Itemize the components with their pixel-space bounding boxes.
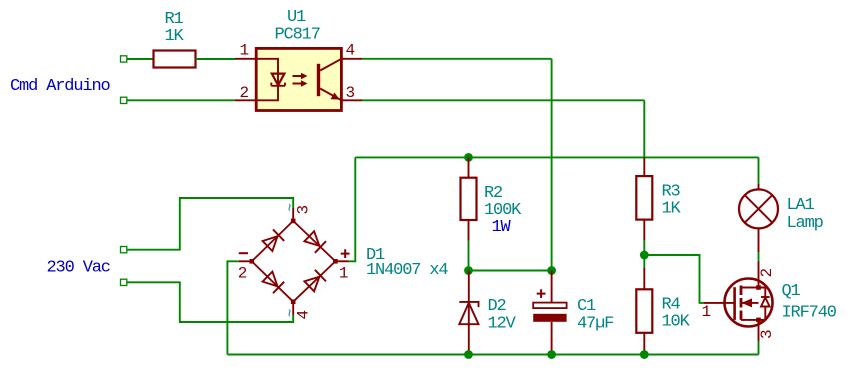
wire pad to R1 [127, 58, 154, 60]
bridge pin2 stub left [239, 260, 252, 262]
svg-text:PC817: PC817 [275, 26, 320, 45]
transistor Q1 internal drain square [756, 285, 761, 290]
resistor R2 [461, 178, 477, 220]
transistor Q1 internal source square [756, 318, 761, 323]
U1 collector line [320, 59, 341, 71]
svg-text:3: 3 [758, 329, 776, 339]
wire R3 bottom to gate node [643, 240, 645, 255]
svg-text:~: ~ [284, 203, 300, 211]
junction R4 ground [640, 350, 649, 359]
pin 2 stub U1 [235, 99, 257, 101]
transistor Q1 body diode branch [759, 288, 766, 320]
wire 230Vac bottom to bridge pin4 [127, 282, 293, 322]
svg-text:1: 1 [339, 265, 349, 283]
wire U1 pin4 vertical down to 12V node [551, 59, 553, 271]
svg-text:12V: 12V [488, 315, 517, 334]
svg-text:IRF740: IRF740 [782, 304, 837, 323]
transistor Q1 gate bar [733, 287, 736, 320]
svg-text:2: 2 [240, 84, 250, 102]
pin 1 stub U1 [235, 58, 257, 60]
pin 3 stub U1 [341, 99, 362, 101]
wire U1 pin4 horizontal [362, 58, 552, 60]
svg-text:Lamp: Lamp [787, 214, 824, 233]
junction gate node [640, 251, 649, 260]
junction D2 ground [464, 350, 473, 359]
bridge pin3 stub top [292, 208, 294, 221]
lamp LA1 cross [745, 195, 773, 223]
svg-text:2: 2 [758, 268, 776, 278]
transistor Q1 substrate line [741, 302, 759, 304]
U1 internal LED triangle [272, 74, 285, 86]
svg-text:1: 1 [240, 42, 250, 60]
transistor Q1 body diode triangle [761, 298, 770, 307]
U1 light arrow lower [293, 83, 302, 85]
transistor Q1 drain internal [741, 287, 759, 289]
U1 light arrow upper [293, 75, 302, 77]
junction rail R2 top [464, 153, 473, 162]
wire 230Vac top to bridge pin3 [127, 198, 293, 250]
resistor R1 [154, 51, 196, 68]
U1 internal LED wiring [256, 59, 278, 101]
svg-text:U1: U1 [287, 8, 306, 27]
wire R2 bottom to 12V node [468, 241, 470, 271]
svg-text:Cmd Arduino: Cmd Arduino [10, 77, 111, 96]
resistor R3 [636, 176, 652, 220]
wire gate node down to R4 [643, 255, 645, 268]
wire Q1 source to ground rail [758, 341, 760, 355]
wire R1 to U1 pin1 [196, 58, 236, 60]
svg-text:47µF: 47µF [577, 315, 613, 334]
wire gate node to Q1 gate [644, 255, 704, 303]
transistor Q1 gate pin [704, 302, 735, 304]
capacitor C1 plus sign [537, 289, 546, 298]
transistor Q1 source internal [741, 319, 759, 321]
svg-text:3: 3 [346, 84, 356, 102]
wire bridge minus to ground rail [227, 261, 238, 354]
svg-text:Q1: Q1 [782, 282, 801, 301]
transistor Q1 channel segments [740, 286, 743, 320]
bridge minus sign [239, 252, 248, 254]
svg-text:D2: D2 [488, 297, 506, 316]
pad 230Vac bottom [121, 279, 127, 285]
lamp LA1 bottom pin [758, 228, 760, 252]
svg-text:C1: C1 [577, 297, 596, 316]
pad 230Vac top [121, 247, 127, 253]
pin stub R3 top [643, 157, 645, 176]
svg-text:1N4007 x4: 1N4007 x4 [366, 261, 448, 280]
capacitor C1 bottom plate [533, 314, 566, 322]
pin stub R4 top [643, 268, 645, 289]
bridge diode bottom-right [304, 277, 319, 292]
resistor R4 [636, 289, 652, 333]
wire lamp to Q1 drain [758, 252, 760, 262]
transistor Q1 circle [725, 279, 773, 327]
pin 4 stub U1 [341, 58, 362, 60]
transistor Q1 drain pin [758, 262, 760, 288]
zener D2 triangle [459, 303, 478, 324]
capacitor C1 bottom pin [551, 322, 553, 355]
transistor Q1 substrate arrow [742, 298, 753, 307]
transistor Q1 source pin [758, 320, 760, 341]
wire U1 pin3 horizontal [362, 99, 644, 101]
pin stub R2 top [468, 157, 470, 177]
junction C1 ground [547, 350, 556, 359]
zener D2 pin line [468, 271, 470, 355]
U1 emitter line [320, 89, 341, 101]
op-amp U1 optocoupler body [256, 48, 341, 110]
bridge diode top-left [263, 236, 278, 251]
svg-text:1K: 1K [662, 200, 682, 219]
svg-text:10K: 10K [662, 313, 691, 332]
svg-text:230 Vac: 230 Vac [47, 259, 110, 278]
diode bridge D1 outline [252, 221, 336, 302]
bridge diode top-right [304, 231, 319, 246]
svg-text:1: 1 [702, 303, 712, 321]
lamp LA1 top pin [758, 184, 760, 190]
lamp LA1 circle [739, 189, 778, 228]
wire rail to lamp [758, 157, 760, 183]
zener D2 cathode bar [459, 302, 478, 307]
bridge pin4 stub bottom [292, 302, 294, 315]
svg-text:LA1: LA1 [787, 196, 815, 215]
capacitor C1 top pin [551, 271, 553, 303]
bridge diode bottom-left [263, 272, 278, 287]
pad pin1 Cmd Arduino [121, 56, 127, 62]
junction 12V node right [547, 266, 556, 275]
svg-text:~: ~ [284, 309, 300, 317]
pad pin2 Cmd Arduino [121, 97, 127, 103]
wire U1 pin3 vertical down to R3 [643, 100, 645, 157]
wire HV rail down to bridge plus [349, 157, 356, 261]
bridge plus sign [341, 249, 350, 258]
pin stub R3 bottom [643, 220, 645, 240]
transistor Q1 body diode bar [761, 296, 770, 298]
svg-text:1W: 1W [492, 218, 512, 237]
bridge corner squares [291, 219, 296, 224]
junction 12V node left [464, 266, 473, 275]
bridge pin1 stub right [335, 260, 348, 262]
wire HV rail horizontal [355, 156, 758, 158]
U1 internal LED cathode bar [271, 83, 285, 86]
svg-text:1K: 1K [165, 27, 185, 46]
wire pad to U1 pin2 [127, 99, 235, 101]
svg-text:2: 2 [238, 265, 248, 283]
wire ground rail [227, 354, 758, 356]
pin stub R2 bottom [468, 220, 470, 241]
pin stub R4 bottom [643, 333, 645, 355]
capacitor C1 top plate [533, 303, 566, 309]
svg-text:4: 4 [346, 42, 356, 60]
U1 phototransistor bar [317, 64, 320, 96]
wire 12V node horizontal [469, 270, 552, 272]
U1 emitter arrow [331, 93, 340, 100]
